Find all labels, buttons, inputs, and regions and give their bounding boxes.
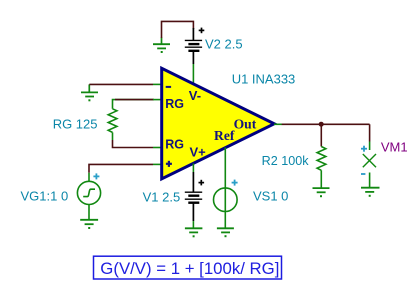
wire Ref pin down through VS1: [224, 147, 226, 228]
ground (top left of V2): [153, 38, 170, 54]
wire junction to VM1: [369, 124, 371, 141]
svg-text:Ref: Ref: [214, 128, 235, 143]
wire Out pin: [274, 123, 282, 125]
svg-text:RG: RG: [165, 97, 184, 111]
ground (below R2): [313, 188, 330, 197]
wire RG top pin: [113, 100, 154, 109]
svg-text:R2 100k: R2 100k: [262, 154, 310, 168]
ground (below V1): [185, 221, 203, 237]
wire V+ pin down to V1: [192, 163, 194, 172]
ground (below VS1): [217, 228, 234, 237]
svg-text:V1 2.5: V1 2.5: [143, 190, 181, 205]
pin label plus: [166, 161, 172, 167]
source VS1: [214, 180, 238, 212]
ground (below VM1): [361, 173, 380, 197]
svg-text:VG1:1 0: VG1:1 0: [21, 189, 69, 204]
svg-text:V2 2.5: V2 2.5: [205, 36, 243, 51]
svg-text:V-: V-: [189, 88, 201, 103]
resistor R2: [317, 147, 326, 171]
ground (left, minus pin): [81, 84, 98, 101]
resistor RG: [108, 109, 117, 133]
svg-text:U1 INA333: U1 INA333: [232, 71, 296, 86]
voltmeter VM1: [361, 142, 376, 175]
wire plus pin (VG1 to op-amp): [89, 164, 153, 172]
svg-text:RG 125: RG 125: [53, 116, 98, 131]
battery V2: [185, 28, 205, 64]
generator VG1: [77, 173, 100, 205]
op-amp U1 INA333 triangle: [162, 68, 275, 179]
svg-text:RG: RG: [165, 137, 184, 151]
pin label minus: [166, 86, 171, 88]
svg-text:VM1: VM1: [381, 140, 408, 155]
svg-text:V+: V+: [190, 145, 207, 160]
battery V1: [185, 172, 204, 221]
wire top ground to V2: [162, 21, 194, 38]
wire junction to R2: [320, 124, 322, 146]
svg-text:Out: Out: [234, 117, 257, 132]
formula box: [94, 256, 282, 279]
wire V- pin (battery V2 to op-amp top edge): [192, 64, 194, 84]
svg-text:G(V/V) = 1 + [100k/ RG]: G(V/V) = 1 + [100k/ RG]: [100, 259, 279, 278]
junction node: [319, 122, 324, 127]
ground (below VG1): [80, 205, 98, 230]
wire minus pin: [89, 83, 153, 85]
wire RG bottom pin: [113, 140, 154, 148]
svg-text:VS1 0: VS1 0: [253, 189, 288, 204]
